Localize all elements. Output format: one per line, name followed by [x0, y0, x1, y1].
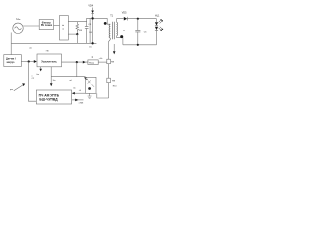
optocoupler U2 — [85, 77, 96, 93]
vertical from node to link — [76, 62, 78, 77]
core lines — [112, 22, 114, 40]
secondary phase dot — [120, 35, 123, 38]
rectifier box A2 — [60, 16, 69, 41]
diode VD4 — [92, 8, 94, 11]
current arrow on drain line — [113, 44, 115, 51]
node — [76, 61, 78, 63]
arrow into opto — [84, 77, 87, 80]
wire source down to bottom bus — [10, 33, 12, 44]
svg-text:R8: R8 — [111, 62, 115, 64]
diode VD5 — [124, 17, 127, 21]
svg-text:об: об — [29, 48, 32, 50]
svg-text:к МК: к МК — [79, 102, 84, 104]
opto ground wire — [89, 93, 91, 96]
svg-text:T1: T1 — [110, 14, 113, 17]
AC source G1 — [13, 23, 23, 33]
wire rectifier top output — [68, 18, 107, 21]
svg-text:БШ-ЧУПВД: БШ-ЧУПВД — [39, 98, 58, 102]
svg-text:Усилитель: Усилитель — [41, 59, 57, 63]
svg-text:R10: R10 — [113, 86, 118, 88]
primary phase dot — [104, 22, 107, 25]
feedback drop line — [28, 62, 36, 102]
svg-text:ф: ф — [92, 56, 94, 59]
LED HL2 — [155, 27, 158, 30]
arrow into controller — [72, 92, 75, 95]
secondary top wire to diode — [117, 19, 124, 23]
svg-text:HL1: HL1 — [155, 14, 160, 17]
wire from opto to controller — [72, 92, 86, 94]
svg-text:R5: R5 — [79, 30, 83, 32]
lower link wire — [97, 93, 109, 98]
horizontal link wire — [51, 76, 85, 78]
resistor R9 — [107, 78, 111, 83]
primary winding — [109, 24, 110, 38]
amp bottom stub 2 — [50, 67, 52, 83]
svg-text:R9: R9 — [112, 80, 116, 82]
svg-text:C6: C6 — [144, 32, 147, 34]
node — [28, 60, 30, 62]
amp bottom stub 1 — [40, 67, 42, 69]
controller output arrow — [72, 99, 84, 101]
svg-text:Uо: Uо — [73, 88, 75, 90]
wire — [108, 64, 110, 78]
svg-text:fоп: fоп — [37, 74, 40, 76]
wire filter to rectifier — [54, 25, 60, 27]
svg-text:Uвх: Uвх — [16, 17, 20, 21]
output plus rail — [127, 18, 156, 20]
feedback wire — [62, 61, 89, 63]
arrow into amp — [34, 60, 37, 63]
wire sensor up to bus — [10, 43, 12, 54]
output return rail — [123, 44, 157, 46]
node cap bottom — [137, 44, 139, 46]
vertical link to bottom bus — [89, 18, 91, 43]
controller box — [36, 90, 71, 104]
wire sensor to amp — [21, 61, 34, 63]
svg-text:ГВ: ГВ — [46, 50, 49, 52]
LED HL1 — [156, 19, 158, 22]
svg-text:Uш: Uш — [53, 80, 56, 82]
node VD4 line to bus — [91, 42, 93, 44]
drain / divider line — [109, 38, 111, 59]
svg-text:нагруз.: нагруз. — [7, 61, 16, 64]
wire — [108, 83, 110, 98]
primary top wire — [107, 18, 110, 24]
svg-text:рег: рег — [10, 89, 13, 91]
svg-text:+U: +U — [79, 90, 82, 92]
box filter A1 — [39, 20, 53, 30]
svg-text:ВЧ помех: ВЧ помех — [41, 24, 53, 27]
svg-text:C5: C5 — [89, 46, 92, 48]
arrow on wire — [83, 61, 86, 64]
secondary winding — [116, 22, 119, 36]
node cap top — [137, 18, 139, 20]
svg-text:VD4: VD4 — [88, 5, 93, 8]
svg-text:=: = — [62, 28, 64, 31]
bottom bus — [11, 42, 96, 44]
resistor R5 zigzag — [76, 22, 79, 34]
wire rectifier lower output — [68, 33, 77, 35]
amp box — [37, 54, 62, 67]
resistor R8 — [107, 59, 111, 64]
HL1 emission arrows — [159, 19, 163, 23]
left box sensor — [4, 55, 22, 67]
svg-text:≈Uо: ≈Uо — [99, 58, 103, 60]
svg-text:к: к — [32, 75, 33, 77]
capacitor C4 — [85, 22, 89, 44]
wire to divider — [98, 61, 107, 63]
secondary bottom wire — [117, 36, 123, 45]
svg-text:СУ: СУ — [32, 78, 35, 80]
node diode-bus — [91, 17, 93, 19]
svg-text:w: w — [123, 30, 125, 32]
ground — [88, 96, 92, 98]
capacitor C6 — [135, 19, 140, 45]
inline box R7 — [88, 60, 98, 65]
svg-text:VD5: VD5 — [122, 12, 127, 15]
node on R5 line — [76, 33, 78, 35]
wire source to filter — [23, 25, 39, 27]
wire R5 down to bus — [76, 34, 78, 43]
svg-text:R6: R6 — [89, 32, 92, 34]
svg-text:Rогр: Rогр — [89, 63, 95, 65]
HL2 emission arrows — [159, 27, 163, 31]
svg-text:об: об — [70, 80, 73, 82]
